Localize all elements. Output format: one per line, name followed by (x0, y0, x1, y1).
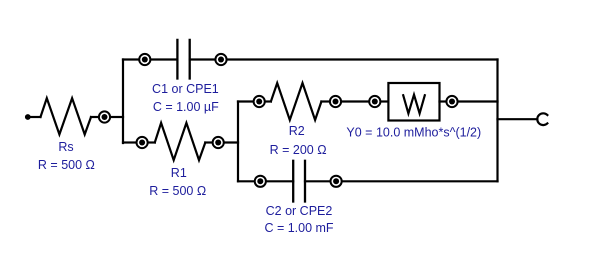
wire C2 branch to right vertical (342, 180, 497, 182)
node C1 left (139, 54, 150, 65)
wire C1 to node (190, 58, 215, 60)
wire right vertical bus (496, 60, 498, 182)
svg-text:C2 or CPE2: C2 or CPE2 (266, 204, 333, 218)
capacitor C2 (293, 161, 305, 202)
wire Rs to node (91, 116, 98, 118)
node R1 right (213, 137, 224, 148)
svg-text:C = 1.00 µF: C = 1.00 µF (153, 100, 219, 114)
node W left (369, 96, 380, 107)
input terminal dot (25, 114, 31, 120)
node C1 right (215, 54, 226, 65)
node R2 right (330, 96, 341, 107)
wire R2 node to W node (342, 100, 369, 102)
wire node to C2 (266, 180, 293, 182)
Warburg element W box (388, 83, 439, 121)
svg-text:R = 500 Ω: R = 500 Ω (149, 184, 206, 198)
svg-text:Rs: Rs (58, 140, 73, 154)
wire input to Rs (32, 116, 41, 118)
wire node to R1 (148, 141, 155, 143)
svg-text:R = 200 Ω: R = 200 Ω (270, 143, 327, 157)
resistor R2 (271, 83, 322, 120)
resistor Rs (41, 98, 92, 134)
label W inside Warburg box (403, 94, 425, 113)
wire C2 to node (305, 180, 330, 182)
node R1 left (137, 137, 148, 148)
svg-text:C = 1.00 mF: C = 1.00 mF (264, 221, 333, 235)
wire R1 branch left (123, 141, 136, 143)
wire C2 branch left (238, 180, 254, 182)
wire to C1 (151, 58, 177, 60)
resistor R1 (155, 123, 206, 160)
capacitor C1 (177, 40, 189, 79)
node C2 right (331, 176, 342, 187)
wire R2 to node (321, 100, 329, 102)
wire left vertical bus (122, 60, 124, 144)
wire node to W box (381, 100, 388, 102)
wire W branch to right vertical (458, 100, 497, 102)
node junction after Rs (99, 111, 110, 122)
wire top branch left (123, 58, 139, 60)
svg-text:R = 500 Ω: R = 500 Ω (38, 158, 95, 172)
wire R1 node to middle vertical (224, 141, 238, 143)
svg-text:R1: R1 (171, 166, 187, 180)
wire middle vertical bus (237, 102, 239, 182)
node C2 left (255, 176, 266, 187)
wire to output terminal (498, 118, 538, 120)
wire top branch to right vertical (227, 58, 497, 60)
svg-text:Y0 = 10.0 mMho*s^(1/2): Y0 = 10.0 mMho*s^(1/2) (346, 126, 481, 140)
node R2 left (254, 96, 265, 107)
wire node to R2 (265, 100, 271, 102)
svg-text:R2: R2 (289, 124, 305, 138)
output terminal open circle (537, 113, 547, 125)
wire R1 to node (205, 141, 212, 143)
svg-text:C1 or CPE1: C1 or CPE1 (152, 82, 219, 96)
wire node to left vertical (111, 116, 123, 118)
wire W box to node (440, 100, 446, 102)
wire R2 branch left (238, 100, 253, 102)
node W right (446, 96, 457, 107)
